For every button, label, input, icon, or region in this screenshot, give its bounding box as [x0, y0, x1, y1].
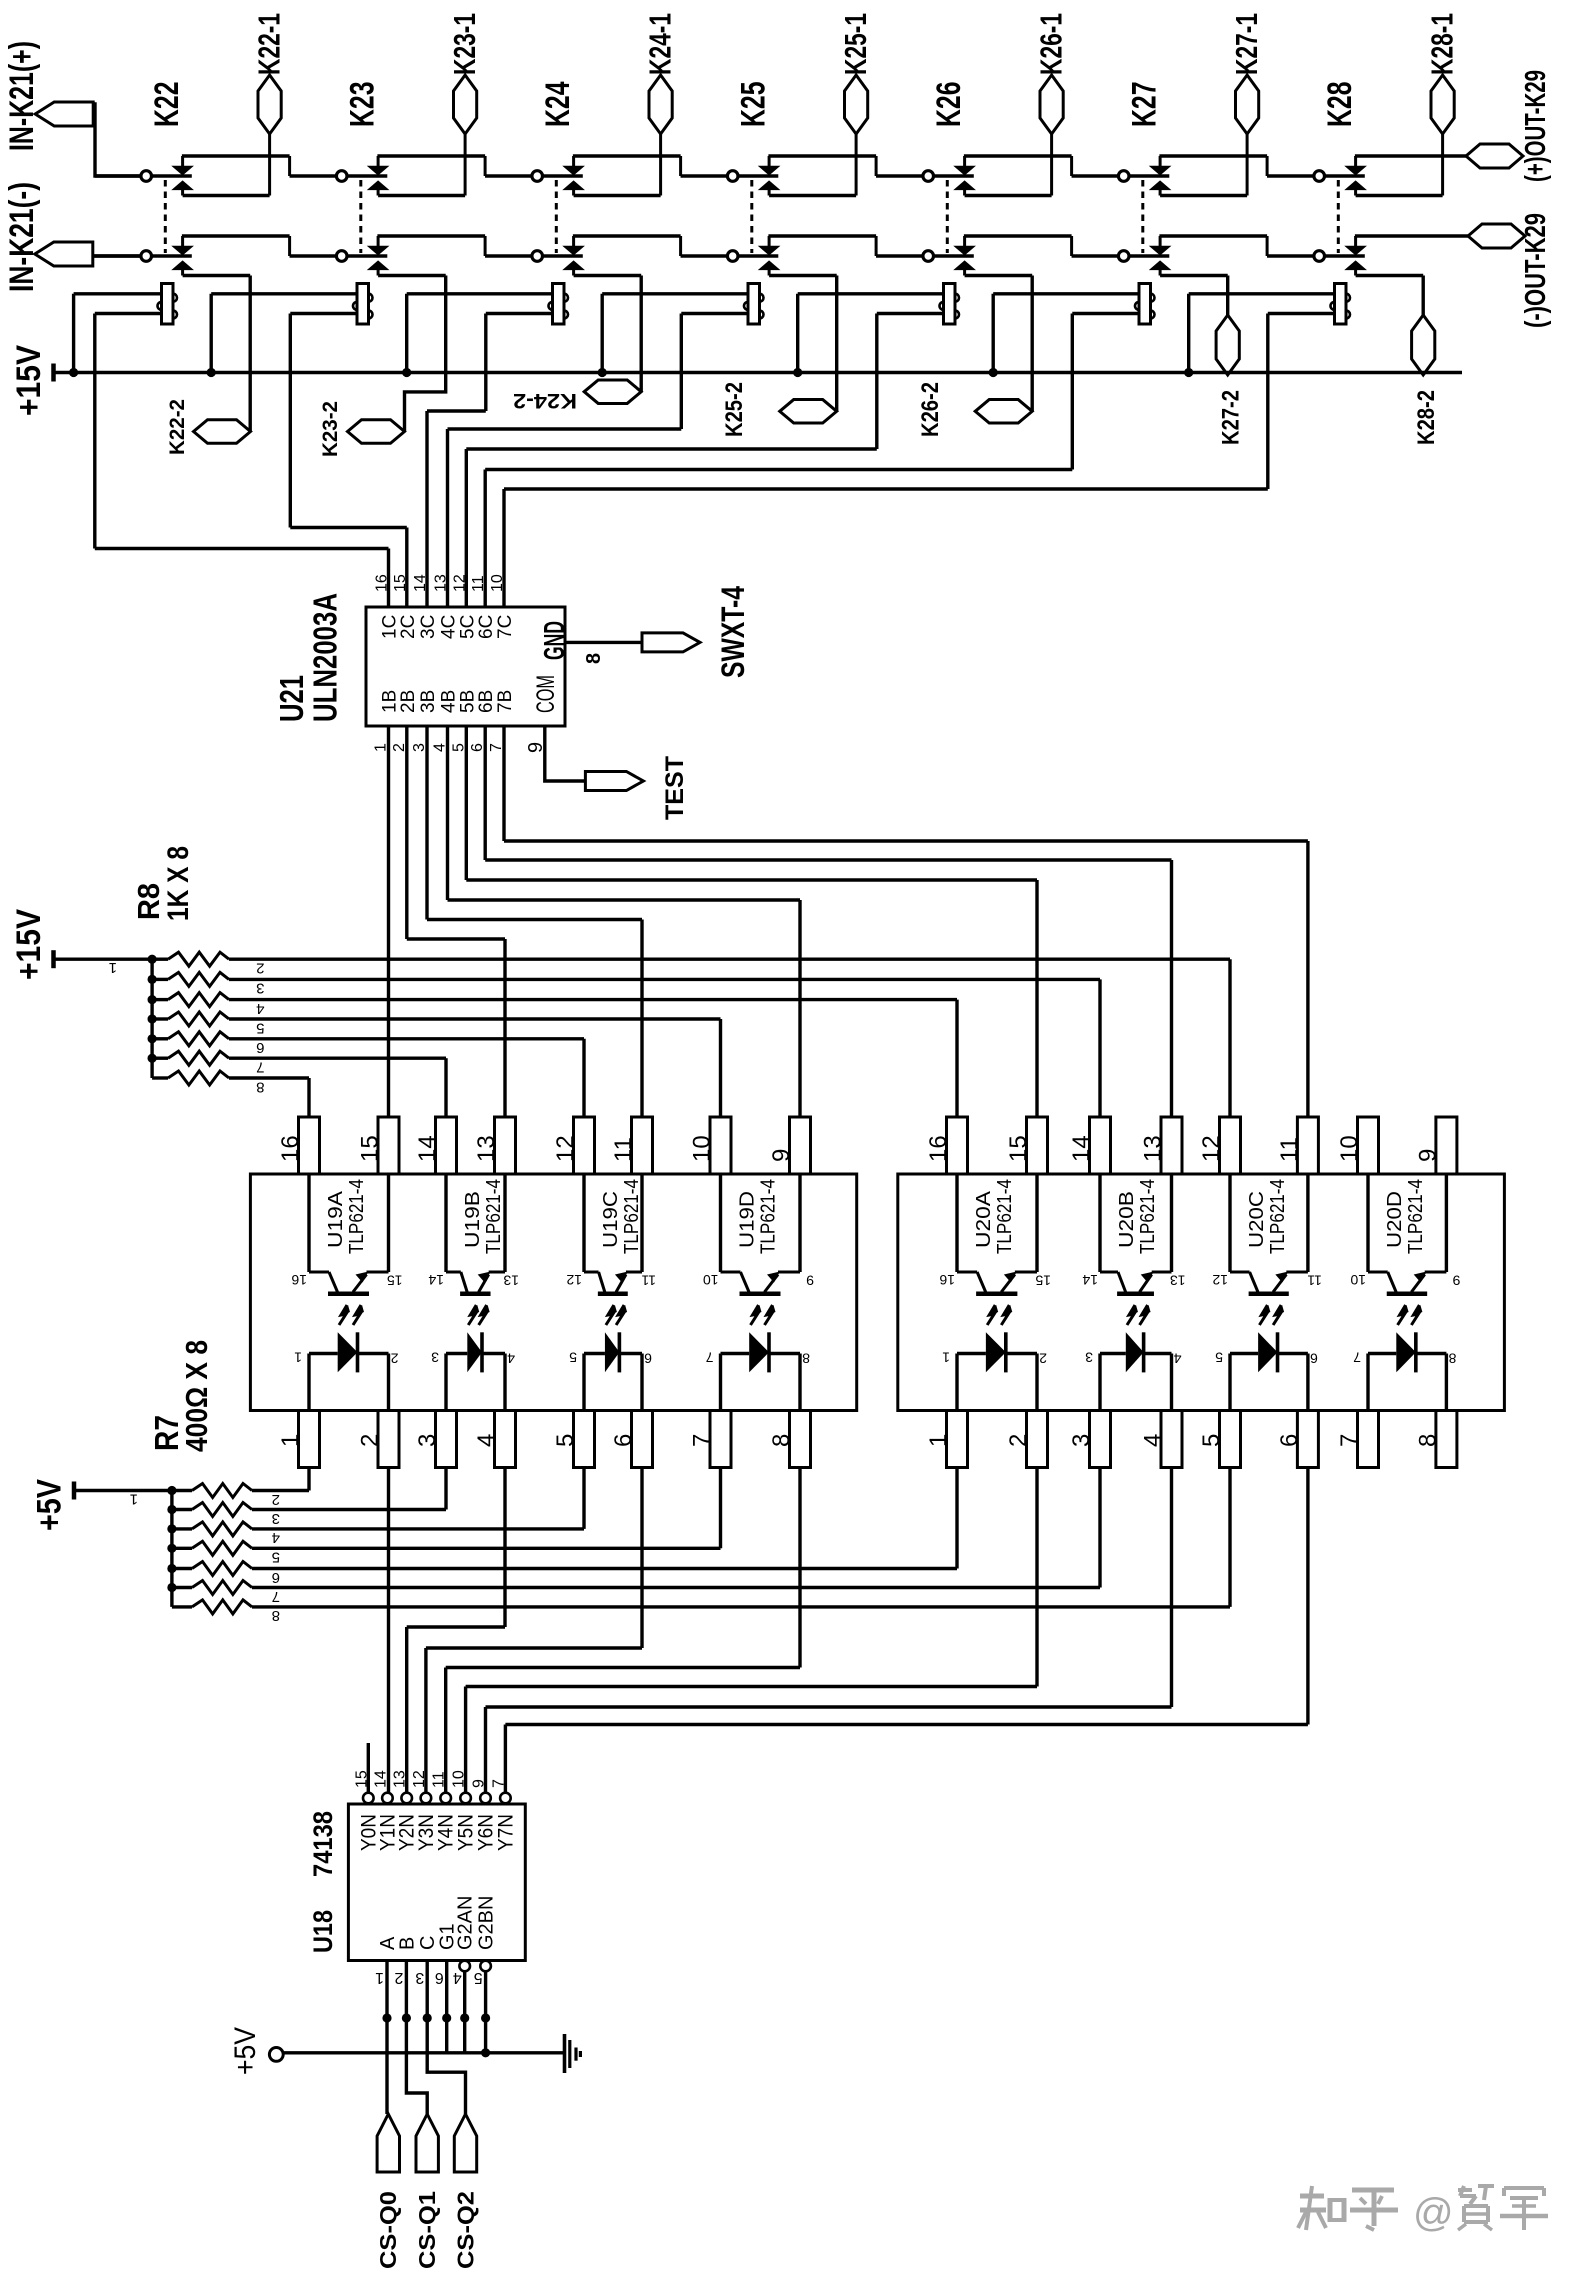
U19 top pin box 16: [299, 1117, 320, 1174]
U19 bottom pin box 8: [790, 1411, 811, 1468]
svg-text:U20D: U20D: [1384, 1191, 1406, 1248]
svg-text:6: 6: [272, 1569, 280, 1586]
IC U19 TLP621-4 body: [250, 1174, 856, 1411]
svg-text:8: 8: [256, 1078, 264, 1095]
U19 top pin box 12: [574, 1117, 595, 1174]
wire R8.2 to opto pin: [229, 958, 1230, 961]
svg-text:7: 7: [706, 1350, 714, 1366]
contact upper bar: [572, 236, 575, 247]
opto U19A LED: [309, 1352, 338, 1355]
opto U20B light arrows: [1127, 1305, 1135, 1325]
svg-text:CS-Q1: CS-Q1: [414, 2191, 440, 2269]
contact terminal circle: [141, 251, 152, 262]
svg-text:10: 10: [451, 1770, 468, 1788]
contact moving arrows: [1150, 166, 1170, 175]
svg-text:2: 2: [394, 1969, 403, 1986]
wire +15V feed to K24 coil: [407, 292, 553, 295]
svg-text:(-)OUT-K29: (-)OUT-K29: [1520, 213, 1552, 328]
svg-text:3C: 3C: [418, 615, 439, 639]
svg-text:G2AN: G2AN: [455, 1896, 477, 1950]
wire B to CS-Q1: [406, 1961, 427, 2115]
svg-text:K27-2: K27-2: [1218, 390, 1245, 445]
contact lower bar: [963, 269, 966, 275]
svg-text:13: 13: [433, 574, 450, 592]
resistor R8.4: [152, 998, 168, 1001]
svg-text:9: 9: [471, 1779, 488, 1788]
svg-text:U19D: U19D: [737, 1191, 759, 1248]
resistor R7.2: [172, 1489, 192, 1492]
contact moving arrows: [173, 246, 193, 255]
svg-text:13: 13: [392, 1770, 409, 1788]
svg-text:K22-1: K22-1: [252, 13, 287, 75]
contact wire: [1129, 254, 1169, 257]
svg-text:400Ω X 8: 400Ω X 8: [179, 1340, 214, 1452]
wire R8.7 to opto pin: [229, 1056, 446, 1059]
wire U21 pin 2 to optocoupler: [405, 726, 408, 939]
power +15V terminal (R8): [51, 950, 56, 968]
mechanical link K28: [1337, 180, 1340, 253]
contact input wire: [876, 174, 923, 177]
svg-text:16: 16: [374, 574, 391, 592]
contact lower bar: [572, 269, 575, 275]
U18 pin 14 bubble: [382, 1793, 393, 1804]
IC U20 TLP621-4 body: [898, 1174, 1505, 1411]
relay coil: [162, 284, 174, 325]
opto U20B LED: [1100, 1352, 1126, 1355]
wire +15V feed to K23 coil: [211, 292, 357, 295]
U19 top pin box 10: [710, 1117, 731, 1174]
U21 pin 14 stub: [425, 411, 428, 607]
svg-text:13: 13: [1140, 1135, 1167, 1162]
svg-text:12: 12: [1212, 1272, 1228, 1288]
resistor R7.4: [172, 1527, 192, 1530]
resistor R7.8: [172, 1605, 192, 1608]
svg-text:5: 5: [256, 1019, 264, 1036]
IC U21 ULN2003A body: [366, 607, 565, 726]
svg-text:4: 4: [507, 1351, 515, 1367]
contact moving arrows: [759, 246, 779, 255]
R7 common bus: [170, 1491, 173, 1607]
svg-text:11: 11: [1307, 1273, 1322, 1289]
contact input wire: [485, 174, 532, 177]
svg-text:3: 3: [414, 1434, 441, 1447]
U19 bottom pin box 3: [436, 1411, 457, 1468]
svg-text:14: 14: [412, 574, 429, 592]
svg-text:TLP621-4: TLP621-4: [758, 1179, 780, 1254]
contact wire: [543, 254, 583, 257]
wire R7.6 to opto pin: [252, 1567, 957, 1570]
terminal flag K26-1: [1040, 75, 1063, 134]
svg-text:16: 16: [277, 1135, 304, 1162]
svg-text:4: 4: [473, 1434, 500, 1447]
svg-text:@: @: [1413, 2191, 1454, 2235]
mechanical link K24: [555, 180, 558, 253]
contact upper bar: [1354, 156, 1357, 167]
opto U19D light arrows: [751, 1305, 759, 1325]
svg-text:12: 12: [552, 1135, 579, 1162]
wire R8.8 to opto pin: [229, 1076, 309, 1079]
svg-text:5: 5: [552, 1434, 579, 1447]
wire K22 coil to driver: [95, 312, 162, 315]
contact lower bar: [181, 189, 184, 195]
svg-text:K23: K23: [344, 82, 382, 128]
svg-text:K27: K27: [1126, 82, 1164, 128]
opto U20D light arrows: [1398, 1305, 1406, 1325]
svg-text:15: 15: [1005, 1135, 1032, 1162]
U18 pin 13 bubble: [401, 1793, 412, 1804]
wire U21 pin 3 to optocoupler: [425, 726, 428, 920]
svg-text:6: 6: [435, 1969, 444, 1986]
svg-text:12: 12: [451, 574, 468, 592]
U20 top pin box 15: [1027, 1117, 1048, 1174]
relay coil: [357, 284, 369, 325]
svg-text:1: 1: [277, 1434, 304, 1447]
U21 pin 15 stub: [405, 528, 408, 608]
contact lower bar: [1159, 189, 1162, 195]
svg-text:1: 1: [375, 1969, 384, 1986]
wire U21 pin 6 to optocoupler: [484, 726, 487, 860]
resistor R8.8: [152, 1076, 168, 1079]
contact input wire: [95, 174, 141, 177]
contact terminal circle: [727, 251, 738, 262]
svg-text:9: 9: [1414, 1149, 1441, 1162]
wire K24-1 lower bar tail: [659, 134, 662, 196]
contact upper bar: [181, 156, 184, 167]
contact terminal circle: [1118, 171, 1129, 182]
svg-text:K24: K24: [539, 81, 577, 127]
svg-text:U20B: U20B: [1116, 1191, 1138, 1248]
contact terminal circle: [141, 171, 152, 182]
wire opto cathode to Y6N: [1170, 1468, 1173, 1708]
svg-text:10: 10: [1350, 1272, 1366, 1288]
svg-text:1: 1: [942, 1350, 950, 1366]
mechanical link K25: [750, 180, 753, 253]
contact lower bar: [1159, 269, 1162, 275]
U20 top pin box 11: [1297, 1117, 1318, 1174]
contact moving arrows: [173, 166, 193, 175]
contact upper bar: [181, 236, 184, 247]
svg-text:+5V: +5V: [229, 2027, 262, 2075]
junction dot: [460, 2013, 469, 2022]
U20 top pin box 16: [947, 1117, 968, 1174]
svg-text:G2BN: G2BN: [476, 1896, 498, 1950]
contact upper bar: [377, 156, 380, 167]
power flag SWXT-4: [642, 633, 700, 652]
svg-text:7C: 7C: [495, 615, 516, 639]
wire K28 coil to driver: [1268, 312, 1335, 315]
svg-text:COM: COM: [532, 675, 560, 713]
contact moving arrows: [955, 246, 975, 255]
opto U20B transistor: [1098, 1174, 1101, 1272]
input flag CS-Q0: [377, 2114, 399, 2172]
contact terminal circle: [1118, 251, 1129, 262]
svg-text:7: 7: [1336, 1434, 1363, 1447]
wire R8.3 to opto pin: [229, 978, 1100, 981]
contact input wire: [485, 254, 532, 257]
U18 pin 11 bubble: [440, 1793, 451, 1804]
input flag CS-Q2: [454, 2114, 476, 2172]
contact moving arrows: [1150, 246, 1170, 255]
U19 bottom pin box 7: [710, 1411, 731, 1468]
terminal flag K25-2: [780, 400, 837, 424]
svg-text:15: 15: [1035, 1273, 1051, 1289]
contact input wire: [1072, 174, 1119, 177]
U20 bottom pin box 7: [1358, 1411, 1379, 1468]
svg-text:U21: U21: [273, 675, 310, 722]
wire +15V to R8 common: [54, 958, 153, 961]
svg-text:5: 5: [474, 1969, 483, 1986]
wire A to CS-Q0: [385, 1961, 388, 2115]
svg-text:K23-2: K23-2: [319, 401, 342, 457]
contact lower bar: [572, 189, 575, 195]
wire K27 coil to driver: [1072, 312, 1139, 315]
wire K26-1 lower bar tail: [1050, 134, 1053, 196]
resistor R8.3: [152, 978, 168, 981]
resistor R8.2: [152, 958, 168, 961]
contact lower bar: [377, 269, 380, 275]
svg-text:K26-2: K26-2: [917, 382, 944, 437]
svg-text:5: 5: [569, 1350, 577, 1366]
U19 top pin box 13: [495, 1117, 516, 1174]
wire R7.3 to opto pin: [252, 1508, 446, 1511]
wire +15V feed to K25 coil: [602, 292, 748, 295]
svg-text:1: 1: [130, 1491, 138, 1508]
svg-text:SWXT-4: SWXT-4: [715, 586, 751, 678]
U20 bottom pin box 6: [1297, 1411, 1318, 1468]
wire +15V rail: [54, 371, 1463, 374]
U21 pin 10 stub: [502, 489, 505, 607]
svg-text:3: 3: [415, 1969, 424, 1986]
svg-text:K25: K25: [735, 82, 773, 128]
contact upper bar: [572, 156, 575, 167]
svg-text:K27-1: K27-1: [1229, 13, 1264, 75]
power +5V terminal (U18): [269, 2047, 283, 2061]
terminal flag K24-2: [584, 380, 641, 404]
wire K23 coil to driver: [290, 312, 357, 315]
svg-text:4: 4: [256, 1000, 264, 1017]
svg-text:5B: 5B: [457, 690, 478, 713]
wire U21 pin 4 to optocoupler: [446, 726, 449, 900]
svg-text:K25-1: K25-1: [838, 13, 873, 75]
U21 pin 13 stub: [446, 429, 449, 607]
svg-text:9: 9: [525, 742, 547, 753]
svg-text:K24-1: K24-1: [643, 13, 678, 75]
opto U20C LED: [1230, 1352, 1258, 1355]
svg-text:K22-2: K22-2: [166, 399, 189, 455]
svg-text:9: 9: [806, 1273, 814, 1289]
terminal flag K25-1: [845, 75, 868, 134]
svg-text:11: 11: [610, 1137, 637, 1162]
svg-text:CS-Q0: CS-Q0: [375, 2191, 401, 2269]
opto U20A LED: [957, 1352, 986, 1355]
contact wire: [1325, 174, 1365, 177]
svg-text:15: 15: [357, 1135, 384, 1162]
wire K22-2: [248, 276, 251, 432]
svg-text:11: 11: [641, 1273, 656, 1289]
junction dot: [423, 2013, 432, 2022]
svg-text:8: 8: [272, 1607, 280, 1624]
contact input wire: [681, 174, 728, 177]
contact lower bar: [377, 189, 380, 195]
svg-text:15: 15: [387, 1273, 403, 1289]
wire IN-K21(+): [94, 104, 141, 176]
relay coil: [944, 284, 956, 325]
U20 bottom pin box 1: [947, 1411, 968, 1468]
wire R7.8 to opto pin: [252, 1605, 1230, 1608]
opto U19B LED: [446, 1352, 467, 1355]
wire G2AN to +5V rail: [463, 1971, 466, 2053]
svg-text:TLP621-4: TLP621-4: [1137, 1179, 1159, 1254]
contact terminal circle: [1314, 251, 1325, 262]
wire K24 coil to driver: [486, 312, 553, 315]
svg-text:1: 1: [925, 1434, 952, 1447]
U20 top pin box 13: [1161, 1117, 1182, 1174]
svg-text:4: 4: [1174, 1351, 1182, 1367]
contact input wire: [1072, 254, 1119, 257]
contact wire: [738, 174, 778, 177]
wire K24-2: [640, 276, 643, 392]
svg-text:15: 15: [392, 574, 409, 592]
U19 bottom pin box 6: [632, 1411, 653, 1468]
contact wire: [738, 254, 778, 257]
terminal flag K26-2: [975, 400, 1032, 424]
svg-text:14: 14: [414, 1135, 441, 1162]
wire R8.4 to opto pin: [229, 998, 957, 1001]
U19 top pin box 11: [632, 1117, 653, 1174]
svg-text:14: 14: [1068, 1135, 1095, 1162]
svg-text:6: 6: [610, 1434, 637, 1447]
ground symbol: [563, 2034, 567, 2073]
svg-text:6: 6: [644, 1351, 652, 1367]
svg-text:ULN2003A: ULN2003A: [307, 593, 344, 722]
wire C to CS-Q2: [427, 1961, 465, 2115]
svg-text:10: 10: [689, 1135, 716, 1162]
svg-text:R8: R8: [131, 883, 166, 920]
opto U20C light arrows: [1259, 1305, 1267, 1325]
U20 bottom pin box 8: [1436, 1411, 1457, 1468]
terminal flag K28-1: [1431, 75, 1454, 134]
svg-text:16: 16: [291, 1272, 307, 1288]
svg-text:IN-K21(-): IN-K21(-): [3, 182, 41, 292]
resistor R8.6: [152, 1037, 168, 1040]
contact wire: [347, 174, 387, 177]
wire U21 pin 5 to optocoupler: [465, 726, 468, 880]
svg-text:5: 5: [272, 1549, 280, 1566]
svg-text:7: 7: [490, 1779, 507, 1788]
svg-text:(+)OUT-K29: (+)OUT-K29: [1520, 70, 1552, 182]
svg-text:1: 1: [109, 959, 117, 976]
U20 top pin box 9: [1436, 1117, 1457, 1174]
U18 pin 5 bubble: [480, 1961, 491, 1972]
svg-text:16: 16: [939, 1272, 955, 1288]
svg-text:U20A: U20A: [973, 1190, 995, 1248]
svg-text:TLP621-4: TLP621-4: [621, 1179, 643, 1254]
opto U20C transistor: [1228, 1174, 1231, 1272]
wire K27-2: [1226, 276, 1229, 316]
contact wire: [152, 174, 192, 177]
contact upper bar: [768, 236, 771, 247]
contact input wire: [290, 254, 337, 257]
svg-text:U19B: U19B: [462, 1191, 484, 1248]
svg-text:3: 3: [272, 1510, 280, 1527]
U19 top pin box 9: [790, 1117, 811, 1174]
svg-text:1: 1: [294, 1350, 302, 1366]
svg-text:11: 11: [431, 1771, 448, 1788]
svg-text:2: 2: [357, 1434, 384, 1447]
wire K26 coil to driver: [877, 312, 944, 315]
contact lower bar: [1354, 269, 1357, 275]
svg-text:2: 2: [256, 960, 264, 977]
opto U19A transistor: [307, 1174, 310, 1272]
svg-text:TLP621-4: TLP621-4: [346, 1179, 368, 1254]
terminal flag K23-1: [454, 75, 477, 134]
svg-text:8: 8: [802, 1351, 810, 1367]
svg-text:TLP621-4: TLP621-4: [994, 1179, 1016, 1254]
wire K28-2: [1421, 276, 1424, 316]
junction dot: [442, 2013, 451, 2022]
svg-text:8: 8: [768, 1434, 795, 1447]
wire +15V feed to K27 coil: [993, 292, 1139, 295]
output flag (-)OUT-K29: [1468, 224, 1525, 248]
contact wire: [543, 174, 583, 177]
svg-text:K28-2: K28-2: [1413, 390, 1440, 445]
svg-text:K22: K22: [148, 82, 186, 128]
terminal flag K27-2: [1216, 315, 1239, 375]
wire K25 coil to driver: [681, 312, 748, 315]
svg-text:K28: K28: [1321, 82, 1359, 128]
wire K22-1 lower bar tail: [268, 134, 271, 196]
svg-text:K26: K26: [930, 82, 968, 128]
wire G1 to +5V rail: [445, 1961, 448, 2053]
junction dot: [382, 2013, 391, 2022]
contact lower bar: [963, 189, 966, 195]
mechanical link K23: [359, 180, 362, 253]
contact terminal circle: [532, 251, 543, 262]
contact input wire: [290, 174, 337, 177]
opto U20D LED: [1368, 1352, 1396, 1355]
U20 top pin box 12: [1220, 1117, 1241, 1174]
opto U20A light arrows: [987, 1305, 995, 1325]
mechanical link K22: [164, 180, 167, 253]
svg-text:8: 8: [1414, 1434, 1441, 1447]
svg-text:2: 2: [1039, 1351, 1047, 1367]
contact input wire: [681, 254, 728, 257]
relay coil: [748, 284, 760, 325]
opto U19C light arrows: [606, 1305, 614, 1325]
U18 pin 10 bubble: [460, 1793, 471, 1804]
svg-text:12: 12: [566, 1272, 582, 1288]
wire K28-1 lower bar tail: [1441, 134, 1444, 196]
contact moving arrows: [1346, 166, 1366, 175]
contact upper bar: [963, 236, 966, 247]
wire K23-1 lower bar tail: [464, 134, 467, 196]
contact wire: [934, 254, 974, 257]
svg-text:11: 11: [470, 575, 487, 592]
svg-text:74138: 74138: [308, 1811, 338, 1877]
svg-text:7: 7: [256, 1059, 264, 1076]
svg-text:K24-2: K24-2: [513, 389, 577, 412]
wire opto cathode to Y5N: [1035, 1468, 1038, 1687]
svg-text:10: 10: [1336, 1135, 1363, 1162]
contact moving arrows: [955, 166, 975, 175]
contact terminal circle: [1314, 171, 1325, 182]
svg-text:1K X 8: 1K X 8: [162, 846, 195, 921]
resistor R8.5: [152, 1017, 168, 1020]
svg-text:8: 8: [1448, 1351, 1456, 1367]
contact moving arrows: [759, 166, 779, 175]
svg-text:7: 7: [689, 1434, 716, 1447]
U20 bottom pin box 2: [1027, 1411, 1048, 1468]
